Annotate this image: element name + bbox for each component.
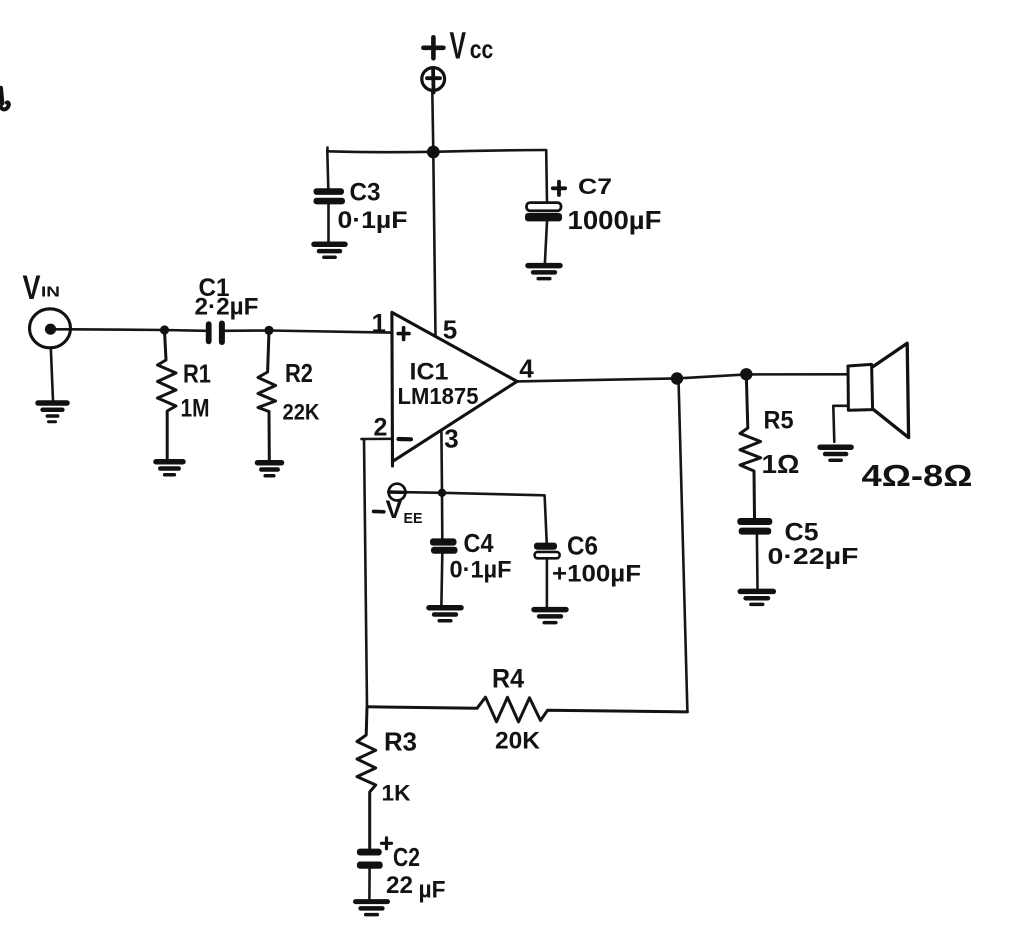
svg-text:4Ω-8Ω: 4Ω-8Ω <box>862 458 973 493</box>
svg-text:C3: C3 <box>350 179 381 207</box>
svg-text:1Ω: 1Ω <box>762 449 800 479</box>
svg-text:C2: C2 <box>393 842 420 872</box>
svg-text:1K: 1K <box>382 781 411 806</box>
svg-text:IN: IN <box>41 284 60 301</box>
svg-text:2: 2 <box>374 414 388 442</box>
svg-text:20K: 20K <box>495 728 541 755</box>
svg-text:R2: R2 <box>285 358 313 388</box>
svg-text:R1: R1 <box>183 359 211 389</box>
svg-text:IC1: IC1 <box>410 359 449 386</box>
svg-text:R3: R3 <box>384 727 417 757</box>
svg-text:1: 1 <box>372 308 386 338</box>
svg-text:EE: EE <box>404 511 423 527</box>
svg-text:V: V <box>386 496 403 524</box>
svg-text:1000µF: 1000µF <box>568 205 662 235</box>
svg-text:R4: R4 <box>492 664 524 694</box>
svg-text:0·22µF: 0·22µF <box>768 543 859 569</box>
svg-text:3: 3 <box>444 424 458 454</box>
svg-text:4: 4 <box>519 354 534 384</box>
svg-text:cc: cc <box>470 34 494 64</box>
svg-text:0·1µF: 0·1µF <box>338 207 408 234</box>
svg-text:22K: 22K <box>283 400 320 425</box>
svg-text:5: 5 <box>443 315 457 345</box>
svg-text:R5: R5 <box>764 407 794 435</box>
svg-text:C4: C4 <box>464 528 494 558</box>
svg-text:V: V <box>450 26 467 68</box>
svg-text:1M: 1M <box>181 395 210 423</box>
svg-text:µF: µF <box>419 877 446 904</box>
svg-text:22: 22 <box>386 872 413 899</box>
svg-text:0·1µF: 0·1µF <box>450 557 512 584</box>
svg-text:C7: C7 <box>578 174 612 199</box>
svg-text:LM1875: LM1875 <box>398 383 479 409</box>
svg-text:+100µF: +100µF <box>552 561 641 588</box>
svg-text:2·2µF: 2·2µF <box>195 294 259 321</box>
svg-text:C6: C6 <box>567 531 598 561</box>
svg-text:V: V <box>23 269 41 307</box>
